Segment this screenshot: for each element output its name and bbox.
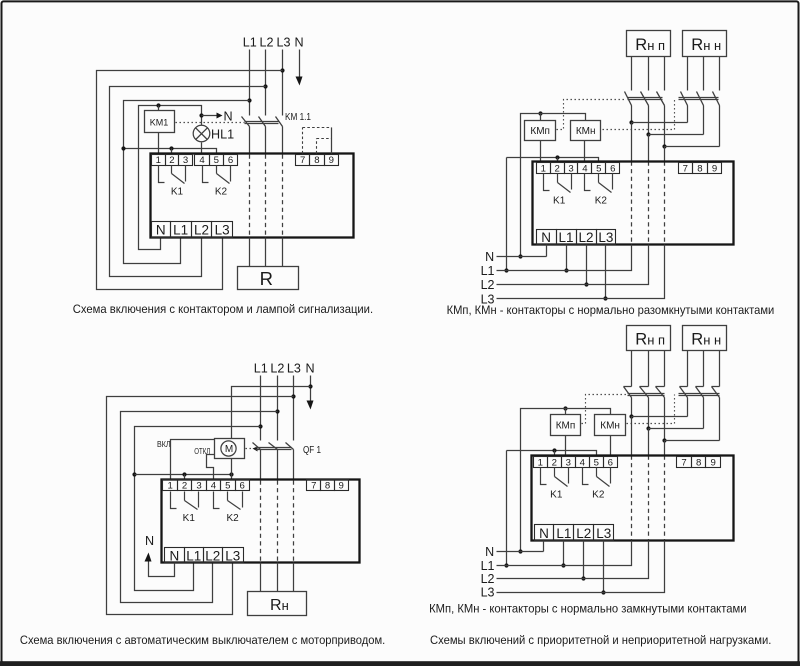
svg-text:K1: K1 xyxy=(171,187,184,198)
svg-text:N: N xyxy=(305,362,314,376)
contactor КМп NC contact pole 1 (BR) xyxy=(624,387,632,417)
dashed jumper pin8 up xyxy=(316,139,318,154)
node N supply (TR) xyxy=(518,254,522,258)
wire load line L3 into box (BR) xyxy=(664,441,666,456)
motor symbol M xyxy=(221,441,236,456)
svg-text:KM1: KM1 xyxy=(150,118,169,128)
dashed link KM1 to KM1.1 xyxy=(176,122,245,124)
svg-text:L2: L2 xyxy=(578,230,593,245)
load resistor R xyxy=(238,267,299,290)
node N supply (BR) xyxy=(518,549,522,553)
svg-text:L3: L3 xyxy=(598,230,613,245)
node pin5 / motor bottom xyxy=(229,472,233,476)
wire load line L2 into box (BR) xyxy=(648,429,650,456)
relay contact K1 (BL) xyxy=(171,492,199,510)
svg-text:1: 1 xyxy=(168,481,173,492)
contactor КМп NC contact pole 2 (BR) xyxy=(640,387,649,429)
svg-text:8: 8 xyxy=(314,155,319,166)
node terminal L2 to feed (TR) xyxy=(584,282,588,286)
wire КМн coil bottom (TR) xyxy=(584,141,586,163)
wire Rн н lead 3 (TR) xyxy=(719,57,721,91)
wire L1 loop feed line (BL) xyxy=(135,474,232,476)
svg-text:9: 9 xyxy=(711,458,716,469)
node L1 tap (BL) xyxy=(258,424,262,428)
wire terminal N riser (BR) xyxy=(543,541,545,552)
svg-text:3: 3 xyxy=(566,458,571,469)
node load line L3 junction (BR) xyxy=(662,438,666,442)
svg-text:Схемы включений с приоритетной: Схемы включений с приоритетной и неприор… xyxy=(430,633,771,647)
svg-text:KM 1.1: KM 1.1 xyxy=(285,112,311,123)
wire to load R (L1) xyxy=(249,238,251,267)
svg-text:3: 3 xyxy=(568,164,573,175)
dashed load path L1 in box (BR) xyxy=(631,456,633,541)
wire loop L3 (BL) xyxy=(107,397,294,615)
node N arrow junction xyxy=(199,113,203,117)
feed line L3 (TR) xyxy=(497,245,665,299)
svg-text:Схема включения с автоматическ: Схема включения с автоматическим выключа… xyxy=(20,633,385,647)
node terminal L3 to feed (BR) xyxy=(601,590,605,594)
feed line L3 (BR) xyxy=(497,541,665,593)
svg-text:L1: L1 xyxy=(173,223,188,238)
wire L1 drop (BL) xyxy=(260,376,262,441)
wire L3 drop (BL) xyxy=(293,376,295,441)
relay device box (BR) xyxy=(532,456,734,541)
wire L1 riser to feed (BR) xyxy=(506,451,508,566)
svg-text:4: 4 xyxy=(211,481,217,492)
node L1 supply (BR) xyxy=(504,563,508,567)
terminal block pins 1-6 (BR) xyxy=(534,457,618,469)
contactor КМн NO contact pole 1 (TR) xyxy=(681,92,688,123)
dashed L1 path in box (BL) xyxy=(260,481,262,563)
svg-text:L1: L1 xyxy=(186,548,201,563)
dotted link КМп (BR) xyxy=(582,395,627,424)
wire Rн н lead 2 (TR) xyxy=(703,57,705,91)
svg-text:3: 3 xyxy=(183,155,188,166)
wire КМп coil top (TR) xyxy=(540,114,542,121)
wire Rн н lead 1 (TR) xyxy=(687,57,689,91)
svg-text:Rн н: Rн н xyxy=(691,36,721,54)
svg-text:L2: L2 xyxy=(270,362,284,376)
dashed jumper top xyxy=(303,127,332,129)
svg-text:4: 4 xyxy=(580,458,586,469)
terminal block pins 7-9 (BL) xyxy=(307,480,349,492)
svg-text:HL1: HL1 xyxy=(211,128,234,142)
wire terminal L1 riser (BR) xyxy=(563,541,565,566)
wire N supply to coils (BR) xyxy=(521,409,611,552)
dashed load path L2 in box (TR) xyxy=(648,162,650,245)
wire N to motor top xyxy=(232,387,311,439)
relay device box (BL) xyxy=(162,480,360,563)
feed line L1 (BR) xyxy=(497,541,632,566)
wire load line L1 into box (TR) xyxy=(631,123,633,162)
wire КМп coil bottom (BR) xyxy=(565,436,567,457)
wire Rн п lead 1 (TR) xyxy=(631,57,633,91)
svg-text:6: 6 xyxy=(240,481,245,492)
dashed jumper inner xyxy=(317,138,332,140)
breaker QF1 pole L1 xyxy=(253,443,261,480)
svg-text:7: 7 xyxy=(311,481,316,492)
svg-text:L2: L2 xyxy=(205,548,220,563)
svg-text:7: 7 xyxy=(683,164,688,175)
contactor КМп NO contact pole 1 (TR) xyxy=(625,92,632,123)
contact KM1.1 pole L2 xyxy=(259,117,266,155)
relay contact K2 (TL) xyxy=(203,166,231,184)
wire pairing L3 (TR) xyxy=(665,146,720,148)
wire pairing L2 (TR) xyxy=(649,134,704,136)
svg-text:L2: L2 xyxy=(194,223,209,238)
wire terminal L2 riser (BR) xyxy=(583,541,585,579)
svg-text:K1: K1 xyxy=(183,513,196,524)
terminal block pins 1-3 (TL) xyxy=(152,155,193,166)
feed line N (TR) xyxy=(497,256,547,258)
svg-text:L1: L1 xyxy=(481,559,495,573)
output terminals N L1 L2 L3 (BR) xyxy=(535,525,614,541)
wire L2 drop (BL) xyxy=(277,376,279,441)
terminal block pins 7-9 (TR) xyxy=(679,163,722,175)
load box Rн xyxy=(248,592,307,616)
node terminal L3 to feed (TR) xyxy=(603,296,607,300)
wire load line L1 into box (BR) xyxy=(631,417,633,456)
svg-text:N: N xyxy=(541,230,551,245)
contactor coil КМп (BR) xyxy=(551,415,581,436)
svg-text:9: 9 xyxy=(712,164,717,175)
svg-text:6: 6 xyxy=(228,155,233,166)
svg-text:1: 1 xyxy=(156,155,161,166)
svg-text:КМп: КМп xyxy=(530,126,550,137)
svg-text:1: 1 xyxy=(538,458,543,469)
terminal block pins 4-6 (TL) xyxy=(195,155,238,166)
wire terminal L1 riser (TR) xyxy=(566,245,568,271)
svg-text:8: 8 xyxy=(696,458,701,469)
arrow link to motor xyxy=(253,447,258,452)
node pin2 feed (TR) xyxy=(555,155,559,159)
wire КМп coil bottom (TR) xyxy=(540,141,542,163)
svg-text:K1: K1 xyxy=(553,195,566,206)
arrow to N (right) xyxy=(217,113,223,119)
feed line L2 (BR) xyxy=(497,541,649,579)
terminal block pins 7-9 (BR) xyxy=(677,457,721,469)
contactor КМн NC contact pole 2 (BR) xyxy=(696,387,704,429)
bottom dark bar xyxy=(0,661,800,666)
svg-text:L2: L2 xyxy=(259,36,273,50)
svg-text:N: N xyxy=(169,548,179,563)
wire Rн н lead 2 (BR) xyxy=(703,351,705,387)
wire L1 loop feed to pin 5 xyxy=(124,149,217,154)
node load line L2 junction (BR) xyxy=(646,426,650,430)
node КМп coil top (BR) xyxy=(563,406,567,410)
svg-text:9: 9 xyxy=(329,155,334,166)
wire ВКЛ pin1 to motor xyxy=(171,440,215,480)
svg-text:5: 5 xyxy=(214,155,219,166)
svg-text:1: 1 xyxy=(541,164,546,175)
relay contact K1 (BR) xyxy=(541,468,569,487)
svg-text:L1: L1 xyxy=(254,362,268,376)
node L1 tap xyxy=(247,98,251,102)
wire pin2 feed stub (BL) xyxy=(184,475,186,480)
wire load line L3 into box (TR) xyxy=(664,147,666,162)
wire loop N from bottom terminal N xyxy=(139,106,202,250)
svg-text:L3: L3 xyxy=(481,585,495,599)
svg-text:N: N xyxy=(485,250,494,264)
node L3 tap xyxy=(280,68,284,72)
svg-text:R: R xyxy=(260,268,273,289)
contactor КМн NC contact pole 1 (BR) xyxy=(680,387,688,417)
feed line L2 (TR) xyxy=(497,245,649,285)
relay contact K2 (BR) xyxy=(583,468,611,487)
wire to load R (L2) xyxy=(265,238,267,267)
load box Rн н (BR) xyxy=(683,326,727,351)
contactor КМп NO contact pole 2 (TR) xyxy=(641,92,649,135)
terminal block pins 1-6 (TR) xyxy=(537,163,620,175)
svg-text:Схема включения с контактором: Схема включения с контактором и лампой с… xyxy=(73,302,373,316)
relay contact K2 (TR) xyxy=(585,174,613,193)
node feed on L1 loop (BL) xyxy=(132,472,136,476)
node KM1 coil top xyxy=(156,103,160,107)
node load line L3 junction (TR) xyxy=(662,144,666,148)
wire pairing L2 (BR) xyxy=(649,428,704,430)
svg-text:L2: L2 xyxy=(481,572,495,586)
wire pin2 feed stub (TR) xyxy=(557,158,559,163)
svg-text:K2: K2 xyxy=(595,195,608,206)
dotted link КМн (TR) xyxy=(603,99,675,130)
svg-text:Rн н: Rн н xyxy=(691,330,721,348)
svg-text:КМп: КМп xyxy=(556,420,576,431)
svg-text:КМн: КМн xyxy=(576,126,596,137)
svg-text:L3: L3 xyxy=(596,526,611,541)
svg-text:L1: L1 xyxy=(556,526,571,541)
svg-text:6: 6 xyxy=(610,164,615,175)
svg-text:7: 7 xyxy=(300,155,305,166)
node КМп coil top (TR) xyxy=(538,111,542,115)
arrow N down (BL) xyxy=(307,401,314,410)
wire КМн coil bottom (BR) xyxy=(610,436,612,457)
output terminals N L1 L2 L3 (BL) xyxy=(165,548,244,564)
wire Rн п lead 1 (BR) xyxy=(631,351,633,387)
svg-text:M: M xyxy=(225,444,233,455)
svg-text:4: 4 xyxy=(582,164,588,175)
contactor coil КМн (BR) xyxy=(595,415,626,436)
svg-text:7: 7 xyxy=(681,458,686,469)
svg-text:L3: L3 xyxy=(276,36,290,50)
svg-text:K2: K2 xyxy=(592,489,605,500)
feed line L1 (TR) xyxy=(497,245,632,271)
svg-text:5: 5 xyxy=(594,458,599,469)
svg-text:5: 5 xyxy=(596,164,601,175)
wire L1 riser to feed (TR) xyxy=(506,158,508,271)
wire Rн н lead 1 (BR) xyxy=(687,351,689,387)
node terminal L1 to feed (TR) xyxy=(564,268,568,272)
wire KM1 coil top stub xyxy=(158,106,160,111)
contactor coil КМп (TR) xyxy=(525,121,556,141)
contactor coil KM1 xyxy=(145,111,175,133)
svg-text:L3: L3 xyxy=(215,223,230,238)
node load line L2 junction (TR) xyxy=(646,132,650,136)
terminal block pins 1-6 (BL) xyxy=(163,480,250,492)
svg-text:L3: L3 xyxy=(225,548,240,563)
dashed L2 path in box (BL) xyxy=(277,481,279,563)
contactor КМн NO contact pole 2 (TR) xyxy=(697,92,704,135)
node feed on L1 loop xyxy=(121,146,125,150)
wire terminal N riser (TR) xyxy=(546,245,548,257)
svg-text:N: N xyxy=(294,36,303,50)
node pin2 feed (BL) xyxy=(182,472,186,476)
svg-text:Rн п: Rн п xyxy=(635,330,665,348)
node L2 tap (BL) xyxy=(275,409,279,413)
contactor coil КМн (TR) xyxy=(571,121,601,141)
wire pin2 feed stub xyxy=(171,149,173,154)
svg-text:2: 2 xyxy=(169,155,174,166)
load box Rн п (TR) xyxy=(627,31,671,57)
node pin2 feed xyxy=(169,146,173,150)
linkage bar КМн contacts (BR) xyxy=(679,394,720,396)
arrow N up (BL) xyxy=(145,553,152,562)
dotted link КМп (TR) xyxy=(557,100,627,130)
wire terminal L3 riser (TR) xyxy=(605,245,607,299)
svg-text:5: 5 xyxy=(225,481,230,492)
svg-text:N: N xyxy=(539,526,549,541)
dotted link motor to QF1 xyxy=(246,448,254,450)
svg-text:Rн п: Rн п xyxy=(635,36,665,54)
svg-text:K2: K2 xyxy=(226,513,239,524)
wire load line L2 into box (TR) xyxy=(648,135,650,162)
wire Rн н lead 3 (BR) xyxy=(719,351,721,387)
node pin2 feed (BR) xyxy=(552,448,556,452)
wire N arrow stub xyxy=(202,115,217,117)
svg-text:ВКЛ: ВКЛ xyxy=(157,440,171,449)
svg-text:2: 2 xyxy=(552,458,557,469)
svg-text:L2: L2 xyxy=(576,526,591,541)
relay contact K1 (TR) xyxy=(544,174,572,193)
wire loop L3 to bottom terminal L3 xyxy=(97,71,283,290)
breaker QF1 pole L3 xyxy=(286,443,294,480)
wire КМп coil top (BR) xyxy=(565,409,567,415)
arrow N down xyxy=(296,77,303,86)
svg-text:КМп, КМн - контакторы с нормал: КМп, КМн - контакторы с нормально замкну… xyxy=(429,601,746,615)
wire L1 drop xyxy=(249,50,251,116)
wire loop L1 (BL) xyxy=(135,427,261,591)
linkage bar КМн contacts (TR) xyxy=(679,98,719,100)
output terminals N L1 L2 L3 (TL) xyxy=(152,222,233,238)
wire to load Rн (L1) xyxy=(260,563,262,592)
wire terminal L2 riser (TR) xyxy=(586,245,588,285)
wire Rн п lead 3 (TR) xyxy=(664,57,666,91)
svg-text:N: N xyxy=(223,109,232,123)
wire L3 drop xyxy=(282,50,284,116)
wire terminal N to up-arrow xyxy=(149,561,175,577)
wire N drop (BL) xyxy=(310,376,312,402)
contact KM1.1 pole L3 xyxy=(276,117,283,155)
motor drive box M xyxy=(215,439,245,459)
output terminals N L1 L2 L3 (TR) xyxy=(537,230,616,246)
wire to load Rн (L3) xyxy=(293,563,295,592)
dashed L1 path in box xyxy=(249,155,251,238)
svg-text:N: N xyxy=(485,545,494,559)
dashed L3 path in box xyxy=(282,155,284,238)
contactor КМп NC contact pole 3 (BR) xyxy=(656,387,665,441)
svg-text:L2: L2 xyxy=(481,278,495,292)
node load line L1 junction (TR) xyxy=(629,120,633,124)
linkage bar KM1.1 xyxy=(245,122,279,124)
relay device box (TR) xyxy=(533,162,734,245)
svg-text:8: 8 xyxy=(697,164,702,175)
wire loop L2 to bottom terminal L2 xyxy=(110,87,266,277)
svg-text:L1: L1 xyxy=(243,36,257,50)
linkage bar QF1 xyxy=(256,448,292,450)
load box Rн н (TR) xyxy=(683,31,727,57)
svg-text:КМн: КМн xyxy=(600,420,620,431)
relay contact K2 (BL) xyxy=(214,492,243,510)
feed line N (BR) xyxy=(497,551,544,553)
wire L1 feed to pin 5 (BR) xyxy=(507,451,597,457)
wire ОТКЛ motor to pin 4 xyxy=(207,455,215,480)
wire HL1 to pin 4 xyxy=(201,143,203,154)
wire pin2 feed stub (BR) xyxy=(554,451,556,457)
wire N supply to coils (TR) xyxy=(521,114,586,257)
contactor КМп NO contact pole 3 (TR) xyxy=(657,92,665,147)
dashed load path L3 in box (BR) xyxy=(664,456,666,541)
wire jumper into pin 9 xyxy=(331,128,333,154)
wire L1 feed to pin 5 (TR) xyxy=(507,158,599,163)
wire Rн п lead 3 (BR) xyxy=(664,351,666,387)
dashed L2 path in box xyxy=(265,155,267,238)
svg-text:2: 2 xyxy=(554,164,559,175)
svg-text:K2: K2 xyxy=(215,187,228,198)
svg-text:QF 1: QF 1 xyxy=(303,445,321,456)
dashed load path L1 in box (TR) xyxy=(631,162,633,245)
svg-text:L3: L3 xyxy=(287,362,301,376)
svg-text:8: 8 xyxy=(325,481,330,492)
wire pairing L3 (BR) xyxy=(665,440,720,442)
node L1 supply (TR) xyxy=(504,268,508,272)
svg-text:N: N xyxy=(156,223,166,238)
dashed L3 path in box (BL) xyxy=(293,481,295,563)
wire to load Rн (L2) xyxy=(277,563,279,592)
wire Rн п lead 2 (BR) xyxy=(648,351,650,387)
node terminal L1 to feed (BR) xyxy=(561,563,565,567)
load box Rн п (BR) xyxy=(627,326,671,351)
wire loop L2 (BL) xyxy=(121,412,278,603)
dashed load path L3 in box (TR) xyxy=(664,162,666,245)
contact KM1.1 pole L1 xyxy=(242,117,250,155)
wire loop L1 to bottom terminal L1 xyxy=(124,101,250,264)
svg-text:N: N xyxy=(145,534,154,548)
node L3 tap (BL) xyxy=(291,394,295,398)
wire motor bottom to pin 5 xyxy=(231,459,233,480)
node load line L1 junction (BR) xyxy=(629,414,633,418)
wire Rн п lead 2 (TR) xyxy=(648,57,650,91)
svg-text:3: 3 xyxy=(196,481,201,492)
svg-text:КМп, КМн - контакторы с нормал: КМп, КМн - контакторы с нормально разомк… xyxy=(447,303,775,317)
breaker QF1 pole L2 xyxy=(269,443,278,480)
svg-text:6: 6 xyxy=(608,458,613,469)
linkage bar КМп contacts (BR) xyxy=(628,394,665,396)
wire terminal L3 riser (BR) xyxy=(603,541,605,593)
wire KM1 coil bottom to pin 1 xyxy=(158,133,160,154)
relay contact K1 (TL) xyxy=(159,166,186,184)
dashed load path L2 in box (BR) xyxy=(648,456,650,541)
svg-text:Rн: Rн xyxy=(270,597,289,614)
wire pairing L1 (TR) xyxy=(632,122,688,124)
svg-text:L1: L1 xyxy=(481,264,495,278)
wire L2 drop xyxy=(265,50,267,116)
wire pairing L1 (BR) xyxy=(632,416,688,418)
node L2 tap xyxy=(263,84,267,88)
relay device box (TL) xyxy=(151,154,354,238)
terminal block pins 7-9 (TL) xyxy=(296,155,339,166)
svg-text:9: 9 xyxy=(338,481,343,492)
lamp HL1 xyxy=(193,125,210,142)
linkage bar КМп contacts (TR) xyxy=(628,98,663,100)
